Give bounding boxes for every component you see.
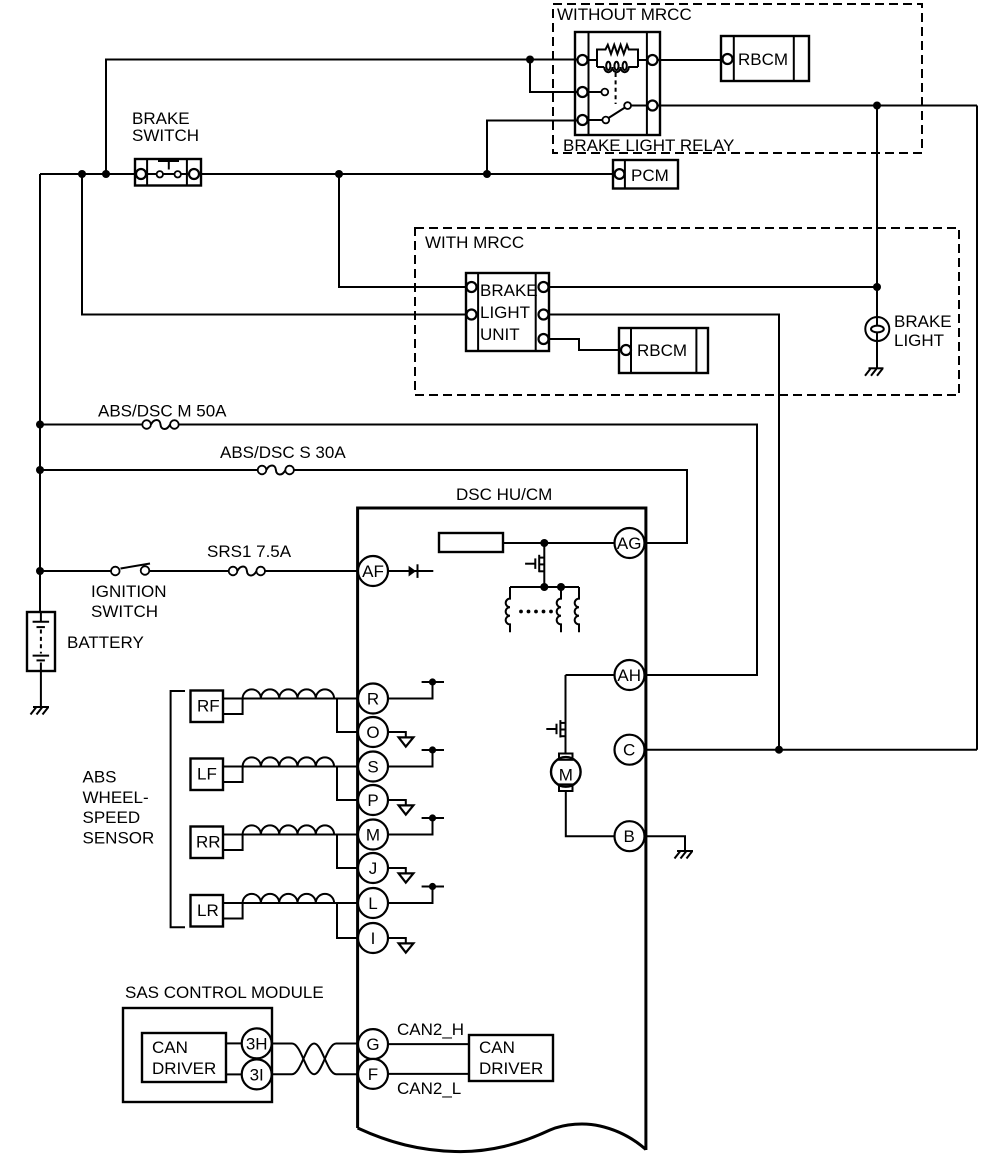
svg-text:M: M: [559, 766, 573, 785]
svg-text:BATTERY: BATTERY: [67, 633, 144, 652]
svg-text:M: M: [366, 826, 380, 845]
svg-text:ABS/DSC S 30A: ABS/DSC S 30A: [220, 443, 346, 462]
svg-text:SAS CONTROL MODULE: SAS CONTROL MODULE: [125, 983, 324, 1002]
svg-text:3H: 3H: [246, 1034, 268, 1053]
svg-text:ABS/DSC M 50A: ABS/DSC M 50A: [98, 402, 227, 421]
svg-text:BRAKE LIGHT RELAY: BRAKE LIGHT RELAY: [563, 136, 734, 155]
svg-text:ABS: ABS: [83, 768, 117, 787]
svg-text:S: S: [367, 758, 378, 777]
svg-text:LR: LR: [197, 901, 219, 920]
svg-text:RBCM: RBCM: [738, 50, 788, 69]
svg-text:SPEED: SPEED: [83, 808, 141, 827]
svg-text:CAN2_H: CAN2_H: [397, 1020, 464, 1039]
svg-text:RF: RF: [197, 697, 220, 716]
svg-text:CAN: CAN: [479, 1038, 515, 1057]
svg-text:3I: 3I: [250, 1065, 264, 1084]
svg-text:WHEEL-: WHEEL-: [83, 788, 149, 807]
svg-text:LIGHT: LIGHT: [480, 303, 530, 322]
svg-text:J: J: [369, 859, 378, 878]
svg-text:RR: RR: [196, 833, 221, 852]
svg-text:UNIT: UNIT: [480, 325, 520, 344]
svg-text:SWITCH: SWITCH: [132, 126, 199, 145]
svg-text:PCM: PCM: [631, 166, 669, 185]
svg-text:AG: AG: [617, 534, 642, 553]
svg-text:SRS1 7.5A: SRS1 7.5A: [207, 542, 292, 561]
svg-text:BRAKE: BRAKE: [480, 281, 538, 300]
svg-text:R: R: [367, 690, 379, 709]
svg-text:AF: AF: [362, 562, 384, 581]
svg-text:L: L: [368, 894, 377, 913]
svg-text:CAN2_L: CAN2_L: [397, 1079, 461, 1098]
svg-text:SENSOR: SENSOR: [83, 829, 155, 848]
svg-text:IGNITION: IGNITION: [91, 582, 167, 601]
svg-text:SWITCH: SWITCH: [91, 602, 158, 621]
svg-text:P: P: [367, 791, 378, 810]
svg-text:F: F: [368, 1065, 378, 1084]
svg-text:RBCM: RBCM: [637, 341, 687, 360]
svg-text:BRAKE: BRAKE: [894, 312, 952, 331]
svg-text:WITH MRCC: WITH MRCC: [425, 233, 524, 252]
svg-text:DRIVER: DRIVER: [152, 1059, 216, 1078]
svg-text:G: G: [366, 1035, 379, 1054]
svg-text:DRIVER: DRIVER: [479, 1059, 543, 1078]
svg-text:LF: LF: [197, 765, 217, 784]
svg-text:DSC HU/CM: DSC HU/CM: [456, 485, 552, 504]
svg-text:B: B: [624, 827, 635, 846]
svg-text:AH: AH: [617, 666, 641, 685]
svg-text:I: I: [371, 929, 376, 948]
svg-text:C: C: [623, 741, 635, 760]
svg-text:LIGHT: LIGHT: [894, 331, 944, 350]
svg-text:O: O: [366, 723, 379, 742]
svg-text:CAN: CAN: [152, 1038, 188, 1057]
svg-text:WITHOUT MRCC: WITHOUT MRCC: [557, 5, 692, 24]
